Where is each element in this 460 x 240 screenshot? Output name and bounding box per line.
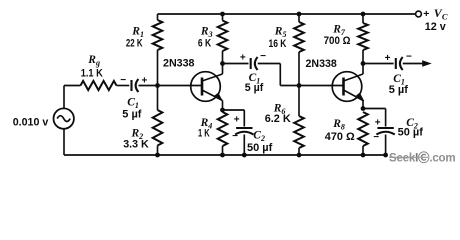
wire: source to input line bbox=[63, 86, 65, 109]
resistor R6 bbox=[298, 86, 300, 117]
svg-text:0.010 v: 0.010 v bbox=[13, 116, 49, 128]
resistor R5 bbox=[298, 14, 300, 22]
resistor R1 bbox=[153, 20, 163, 50]
voltage source (sine) bbox=[54, 108, 74, 128]
capacitor C2 (stage 1 bypass) bbox=[236, 127, 252, 129]
wire: coupling cap to stage 2 base bbox=[258, 63, 281, 65]
node: R7 top at rail bbox=[361, 12, 366, 17]
svg-text:22 K: 22 K bbox=[126, 37, 143, 50]
node: emitter stage 2 bbox=[361, 106, 366, 111]
svg-text:3.3 K: 3.3 K bbox=[123, 138, 149, 150]
svg-text:700 Ω: 700 Ω bbox=[324, 36, 351, 48]
svg-text:5 µf: 5 µf bbox=[389, 84, 409, 96]
svg-text:2N338: 2N338 bbox=[163, 58, 195, 70]
capacitor C2 (stage 2 bypass) bbox=[377, 127, 393, 129]
resistor R8 bbox=[358, 112, 368, 146]
node: emitter stage 1 bbox=[220, 108, 225, 113]
bottom ground rail bbox=[64, 154, 387, 156]
svg-text:50 µf: 50 µf bbox=[247, 142, 273, 154]
wire: C1 to base node bbox=[139, 85, 158, 87]
svg-text:+: + bbox=[423, 8, 429, 20]
wire: output from collector bbox=[363, 63, 394, 65]
resistor Rg bbox=[81, 81, 117, 90]
capacitor C1 (input) bbox=[130, 80, 132, 91]
node: R3 top at rail bbox=[220, 12, 225, 17]
svg-text:1 K: 1 K bbox=[198, 126, 210, 139]
node: R5 top at rail bbox=[297, 12, 302, 17]
svg-text:+: + bbox=[385, 53, 391, 64]
svg-text:+: + bbox=[375, 118, 381, 129]
transistor Q2 2N338 bbox=[332, 72, 362, 102]
svg-text:+: + bbox=[234, 114, 240, 125]
wire: rail drop to R1 bbox=[157, 14, 159, 20]
svg-text:−: − bbox=[406, 52, 412, 63]
capacitor C1 (output) bbox=[395, 58, 397, 69]
resistor R2 bbox=[157, 86, 159, 111]
wire: Rg to C1 bbox=[117, 85, 130, 87]
svg-text:+: + bbox=[141, 75, 147, 86]
svg-text:+: + bbox=[240, 52, 246, 63]
node: base divider stage 2 bbox=[297, 83, 302, 88]
wire: Q2 collector column bbox=[362, 50, 364, 74]
svg-text:6.2 K: 6.2 K bbox=[265, 113, 291, 125]
resistor R4 bbox=[218, 112, 228, 146]
resistor R7 bbox=[358, 23, 368, 50]
svg-text:12 v: 12 v bbox=[425, 21, 446, 33]
wire: output arrow bbox=[403, 63, 424, 65]
node: R2 at ground rail bbox=[155, 153, 160, 158]
top supply rail bbox=[158, 13, 416, 15]
svg-text:470 Ω: 470 Ω bbox=[325, 131, 355, 143]
svg-text:−: − bbox=[232, 131, 238, 142]
svg-text:6 K: 6 K bbox=[198, 37, 212, 49]
wire: source bottom to ground rail bbox=[63, 128, 65, 155]
svg-text:−: − bbox=[260, 51, 266, 62]
svg-text:5 µf: 5 µf bbox=[122, 108, 142, 120]
transistor Q1 2N338 bbox=[191, 72, 221, 102]
svg-text:−: − bbox=[120, 75, 126, 86]
wire: Q1 emitter down bbox=[222, 101, 224, 111]
node: R4 at ground rail bbox=[220, 153, 225, 158]
wire: coupling from collector bbox=[223, 63, 249, 65]
node: base divider stage 1 bbox=[155, 83, 160, 88]
svg-text:2N338: 2N338 bbox=[306, 58, 337, 70]
svg-text:1.1 K: 1.1 K bbox=[81, 68, 104, 80]
node: collector coupling tap bbox=[220, 61, 225, 66]
wire: R1 to base node bbox=[157, 50, 159, 86]
node: C2 at ground rail bbox=[242, 153, 247, 158]
svg-text:−: − bbox=[373, 132, 379, 143]
node: rail end at C2 bbox=[383, 153, 388, 158]
supply terminal Vc bbox=[416, 11, 422, 17]
node: collector output tap bbox=[361, 61, 366, 66]
resistor R3 bbox=[218, 21, 228, 52]
node: R8 at ground rail bbox=[361, 153, 366, 158]
wire: emitter tap to C2 bbox=[223, 109, 245, 111]
wire: Q2 emitter down bbox=[362, 101, 364, 109]
svg-text:50 µf: 50 µf bbox=[398, 127, 424, 139]
capacitor C1 (coupling) bbox=[250, 58, 252, 69]
wire: Q1 collector column bbox=[222, 51, 224, 74]
svg-text:5 µf: 5 µf bbox=[245, 82, 264, 94]
svg-text:16 K: 16 K bbox=[269, 38, 287, 50]
wire: emitter tap to C2 (stage 2) bbox=[363, 108, 386, 110]
node: R6 at ground rail bbox=[297, 153, 302, 158]
